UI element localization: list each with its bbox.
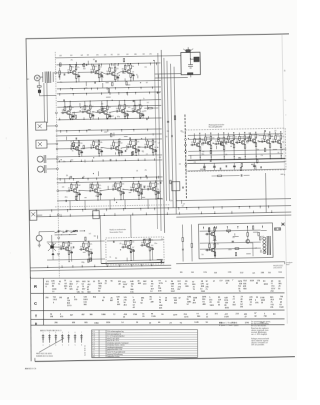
wire junction stub bbox=[101, 93, 103, 95]
svg-text:470: 470 bbox=[122, 184, 124, 186]
wire junction stub bbox=[107, 130, 109, 132]
resistor R66 bbox=[63, 243, 65, 247]
capacitor C3006 bbox=[81, 177, 83, 179]
wire bbox=[233, 163, 235, 165]
svg-text:82: 82 bbox=[254, 316, 256, 318]
wire signal path bbox=[234, 141, 237, 144]
resistor R18 bbox=[70, 115, 72, 119]
svg-text:50: 50 bbox=[140, 302, 142, 304]
table label column bbox=[42, 278, 44, 325]
wire segment bbox=[157, 92, 160, 94]
resistor R2966 bbox=[132, 151, 133, 154]
wire base bias bbox=[91, 188, 93, 190]
capacitor C1 bbox=[57, 230, 59, 232]
svg-text:83: 83 bbox=[256, 283, 258, 285]
svg-text:220: 220 bbox=[80, 143, 82, 145]
resistor R98 bbox=[275, 136, 277, 140]
wire base bias bbox=[84, 110, 86, 112]
capacitor C63 bbox=[240, 174, 242, 176]
wire junction stub bbox=[114, 213, 116, 215]
svg-text:47k: 47k bbox=[99, 185, 101, 187]
svg-text:TS17: TS17 bbox=[116, 183, 120, 185]
wire bypass bbox=[109, 114, 111, 117]
wire segment bbox=[104, 131, 107, 133]
svg-text:47n: 47n bbox=[89, 188, 91, 190]
resistor R3022 bbox=[264, 148, 265, 151]
svg-text:53: 53 bbox=[249, 304, 251, 306]
wire junction stub bbox=[83, 88, 85, 90]
svg-text:307: 307 bbox=[70, 314, 73, 316]
wire junction stub bbox=[135, 92, 137, 94]
transistor TS1 bbox=[72, 71, 76, 75]
wire junction stub bbox=[146, 177, 148, 179]
resistor R84 bbox=[223, 146, 225, 150]
svg-text:810: 810 bbox=[93, 297, 96, 299]
svg-text:10k: 10k bbox=[78, 191, 80, 193]
resistor R46 bbox=[152, 149, 154, 153]
resistor R61 bbox=[155, 191, 157, 195]
resistor R93 bbox=[255, 143, 257, 147]
resistor R82 bbox=[223, 137, 225, 141]
wire input bbox=[214, 143, 215, 145]
svg-text:1659: 1659 bbox=[250, 280, 254, 282]
capacitor C56 bbox=[247, 140, 249, 142]
capacitor C2996 bbox=[143, 186, 145, 188]
resistor R3024 bbox=[249, 136, 250, 139]
wire emitter bbox=[77, 149, 80, 152]
svg-text:41: 41 bbox=[226, 283, 228, 285]
resistor R17 bbox=[64, 107, 66, 111]
wire vertical interconnect bbox=[171, 64, 174, 208]
svg-text:100u: 100u bbox=[141, 242, 144, 244]
wire emitter bbox=[119, 190, 122, 193]
wire rail bbox=[56, 160, 162, 162]
resistor R43 bbox=[135, 149, 137, 153]
wire bypass bbox=[155, 148, 157, 151]
wire segment bbox=[74, 144, 76, 147]
resistor R2956 bbox=[75, 115, 76, 118]
wire emitter bbox=[213, 250, 216, 253]
wire segment bbox=[259, 134, 264, 136]
svg-text:3k3: 3k3 bbox=[151, 245, 153, 247]
capacitor C48 bbox=[141, 244, 143, 246]
resistor R90 bbox=[244, 144, 246, 148]
wire signal path bbox=[213, 143, 215, 144]
svg-text:201: 201 bbox=[270, 307, 273, 309]
wire junction stub bbox=[83, 117, 85, 119]
resistor R3084 bbox=[90, 258, 91, 261]
resistor R79 bbox=[210, 137, 212, 141]
transistor TS27 bbox=[230, 140, 234, 144]
frame left border lower part bbox=[30, 277, 33, 362]
resistor R3 bbox=[75, 66, 77, 70]
svg-text:TS2: TS2 bbox=[94, 66, 97, 68]
resistor R99 bbox=[280, 144, 282, 148]
svg-text:25u: 25u bbox=[215, 141, 217, 143]
wire emitter bbox=[74, 73, 77, 76]
svg-text:220: 220 bbox=[92, 112, 94, 114]
resistor R86 bbox=[228, 136, 230, 140]
wire input bbox=[69, 148, 70, 150]
wire bus bbox=[36, 212, 291, 217]
wire base bias bbox=[194, 143, 196, 145]
svg-text:10k: 10k bbox=[132, 72, 134, 74]
wire bbox=[212, 175, 218, 177]
wire junction stub bbox=[114, 117, 116, 119]
wire segment bbox=[147, 105, 149, 110]
svg-text:C: C bbox=[34, 302, 37, 306]
resistor R106 bbox=[214, 252, 216, 256]
wire emitter to ground bbox=[223, 150, 225, 157]
feed resistor 2 bbox=[191, 243, 193, 247]
wire segment bbox=[114, 152, 116, 154]
svg-text:680p: 680p bbox=[116, 108, 119, 110]
svg-text:686: 686 bbox=[134, 54, 137, 56]
wire bbox=[38, 81, 40, 86]
svg-text:470: 470 bbox=[101, 103, 103, 105]
svg-text:2n2: 2n2 bbox=[179, 164, 181, 166]
svg-text:560: 560 bbox=[207, 143, 209, 145]
electrolytic capacitor C49 bbox=[151, 247, 153, 249]
svg-text:10u: 10u bbox=[90, 145, 92, 147]
transistor TS25 bbox=[207, 141, 211, 145]
resistor R80 bbox=[205, 137, 207, 141]
wire junction stub bbox=[86, 93, 88, 95]
wire base bias bbox=[113, 146, 115, 148]
wire signal path bbox=[72, 111, 81, 114]
play head bbox=[37, 166, 43, 172]
capacitor C52 bbox=[202, 142, 204, 144]
wire diagonal bbox=[48, 243, 56, 251]
svg-text:439: 439 bbox=[150, 302, 153, 304]
resistor R10 bbox=[109, 68, 111, 72]
svg-text:2M2: 2M2 bbox=[78, 185, 81, 187]
wire junction stub bbox=[70, 160, 72, 162]
transistor TS23 bbox=[146, 243, 150, 247]
svg-text:820: 820 bbox=[180, 272, 183, 274]
svg-text:90: 90 bbox=[111, 281, 113, 283]
svg-text:25u: 25u bbox=[138, 104, 140, 106]
resistor R3060 bbox=[259, 237, 260, 240]
transistor TS26 bbox=[220, 142, 224, 146]
resistor R67 bbox=[68, 251, 70, 255]
resistor R2954 bbox=[126, 82, 127, 85]
resistor R75 bbox=[174, 116, 176, 120]
svg-text:TS8: TS8 bbox=[120, 105, 123, 107]
capacitor C65 bbox=[206, 249, 208, 251]
transistor TS34 bbox=[246, 239, 250, 243]
wire segment bbox=[213, 240, 217, 242]
wire bbox=[61, 230, 64, 232]
wire rail bbox=[56, 129, 162, 131]
svg-text:TS19: TS19 bbox=[151, 183, 155, 185]
electrolytic capacitor C44 bbox=[71, 251, 73, 253]
svg-text:341: 341 bbox=[70, 55, 73, 57]
svg-text:3k3: 3k3 bbox=[100, 148, 102, 150]
resistor R70 bbox=[125, 241, 127, 245]
svg-text:TS26: TS26 bbox=[219, 138, 223, 140]
wire signal path bbox=[127, 110, 131, 113]
frame right border bbox=[282, 34, 287, 324]
shield dashed vertical bbox=[55, 52, 59, 278]
electrolytic capacitor C62 bbox=[253, 164, 255, 166]
svg-text:90: 90 bbox=[206, 322, 208, 324]
wire segment bbox=[106, 96, 111, 98]
microphone M2 bbox=[36, 235, 42, 241]
svg-text:100u: 100u bbox=[144, 144, 147, 146]
wire bypass bbox=[122, 190, 124, 193]
wire bbox=[203, 168, 205, 170]
oscillator box bbox=[181, 52, 201, 75]
wire segment bbox=[126, 145, 128, 150]
svg-text:603: 603 bbox=[138, 283, 141, 285]
wire emitter bbox=[114, 74, 117, 77]
svg-text:1388: 1388 bbox=[261, 272, 265, 274]
svg-text:25u: 25u bbox=[217, 243, 219, 245]
wire bypass bbox=[81, 150, 83, 153]
resistor R74 bbox=[149, 247, 151, 251]
wire junction stub bbox=[147, 129, 149, 131]
capacitor C15 bbox=[98, 111, 100, 113]
capacitor C3005 bbox=[109, 177, 111, 179]
svg-text:4u7: 4u7 bbox=[67, 248, 69, 250]
wire junction stub bbox=[127, 117, 129, 119]
wire junction stub bbox=[82, 209, 84, 211]
svg-text:493: 493 bbox=[192, 302, 195, 304]
wire bypass bbox=[121, 149, 123, 152]
wire bypass bbox=[78, 74, 80, 77]
wire junction stub bbox=[198, 207, 200, 209]
wire emitter to ground bbox=[255, 146, 257, 156]
wire segment bbox=[76, 62, 78, 66]
wire base bias bbox=[70, 188, 72, 190]
wire signal path bbox=[101, 72, 106, 74]
resistor R89 bbox=[239, 136, 241, 140]
capacitor C13 bbox=[81, 111, 83, 113]
wire input bbox=[79, 248, 80, 250]
wire segment bbox=[127, 92, 129, 96]
svg-text:453: 453 bbox=[126, 54, 129, 56]
svg-text:85: 85 bbox=[102, 300, 104, 302]
svg-text:1296: 1296 bbox=[245, 322, 249, 324]
block B dashed bottom bbox=[55, 205, 170, 207]
svg-text:22GC200/01Z: 22GC200/01Z bbox=[273, 267, 282, 269]
wire segment bbox=[253, 142, 256, 144]
wire bbox=[187, 47, 189, 49]
svg-text:560: 560 bbox=[72, 107, 74, 109]
transistor TS6 bbox=[86, 110, 90, 114]
wire bbox=[250, 242, 253, 244]
wire segment bbox=[134, 149, 136, 153]
wire junction stub bbox=[214, 211, 216, 213]
wire segment bbox=[145, 137, 147, 141]
wire segment bbox=[152, 133, 154, 135]
svg-text:220n: 220n bbox=[65, 196, 68, 198]
svg-text:220: 220 bbox=[126, 111, 128, 113]
wire junction stub bbox=[87, 178, 89, 180]
table line bbox=[30, 277, 284, 280]
wire junction stub bbox=[59, 118, 61, 120]
svg-text:100u: 100u bbox=[276, 134, 279, 136]
resistor R69 bbox=[130, 240, 132, 244]
wire collector bbox=[152, 144, 154, 145]
wire emitter bbox=[87, 250, 90, 253]
resistor R11 bbox=[114, 76, 116, 80]
wire junction stub bbox=[59, 89, 61, 91]
wire base bias bbox=[70, 70, 72, 72]
svg-text:0,8: 0,8 bbox=[182, 206, 184, 208]
svg-text:23: 23 bbox=[169, 322, 171, 324]
wire jack bbox=[37, 214, 42, 216]
svg-text:55: 55 bbox=[81, 291, 83, 293]
wire bbox=[59, 75, 61, 80]
transistor TS15 bbox=[73, 189, 77, 193]
wire junction stub bbox=[216, 227, 218, 229]
resistor R44 bbox=[152, 141, 154, 145]
electrolytic capacitor C47 bbox=[133, 249, 135, 251]
resistor R2937 bbox=[112, 82, 113, 85]
wire input bbox=[146, 188, 147, 190]
wire base bias bbox=[124, 69, 126, 71]
wire junction stub bbox=[140, 208, 142, 210]
wire collector bbox=[135, 144, 137, 145]
svg-text:560: 560 bbox=[147, 247, 149, 249]
wire base bias bbox=[264, 139, 266, 141]
svg-text:TS5: TS5 bbox=[66, 107, 69, 109]
electrolytic capacitor C18 bbox=[127, 113, 129, 115]
transistor TS19 bbox=[152, 187, 156, 191]
wire vertical interconnect bbox=[174, 67, 177, 208]
wire emitter to ground bbox=[98, 153, 100, 156]
svg-text:30: 30 bbox=[84, 348, 86, 350]
wire segment bbox=[122, 111, 125, 113]
svg-text:4u7: 4u7 bbox=[90, 69, 92, 71]
wire collector bbox=[214, 247, 216, 248]
wire junction stub bbox=[212, 207, 214, 209]
svg-text:48: 48 bbox=[118, 284, 120, 286]
svg-text:220: 220 bbox=[116, 68, 118, 70]
wire emitter bbox=[96, 191, 99, 194]
svg-text:PRINT 9022 245 04391: PRINT 9022 245 04391 bbox=[36, 353, 52, 355]
wire junction stub bbox=[149, 63, 151, 65]
wire junction stub bbox=[67, 210, 69, 212]
svg-text:286: 286 bbox=[54, 322, 57, 324]
svg-text:TS22: TS22 bbox=[126, 241, 130, 243]
svg-text:1833: 1833 bbox=[264, 284, 268, 286]
capacitor C3007 bbox=[65, 200, 67, 202]
wire junction stub bbox=[238, 207, 240, 209]
electrolytic capacitor C26 bbox=[121, 150, 123, 152]
svg-text:150: 150 bbox=[157, 184, 159, 186]
wire segment bbox=[258, 141, 263, 143]
svg-text:AA6024 CS: AA6024 CS bbox=[25, 367, 37, 370]
resistor R15 bbox=[59, 71, 61, 75]
resistor R3034 bbox=[210, 150, 211, 153]
resistor R59 bbox=[155, 183, 157, 187]
wire emitter to ground bbox=[130, 253, 132, 261]
capacitor C27 bbox=[127, 146, 129, 148]
svg-text:867: 867 bbox=[110, 300, 113, 302]
wire junction stub bbox=[117, 64, 119, 66]
wire segment bbox=[261, 229, 267, 231]
svg-text:405: 405 bbox=[159, 307, 162, 309]
transistor TS4 bbox=[127, 70, 131, 74]
wire input to row1 bbox=[56, 72, 67, 74]
wire segment bbox=[73, 112, 75, 116]
wire segment bbox=[85, 81, 87, 86]
wire bypass bbox=[78, 192, 80, 195]
wire junction stub bbox=[154, 208, 156, 210]
wire bbox=[69, 230, 74, 232]
wire segment bbox=[103, 108, 106, 110]
input transformer bbox=[44, 72, 46, 83]
svg-text:36: 36 bbox=[123, 286, 125, 288]
svg-text:6V: 6V bbox=[134, 105, 136, 107]
svg-text:1n5: 1n5 bbox=[126, 116, 128, 118]
wire input bbox=[98, 112, 99, 114]
wire segment bbox=[143, 185, 145, 187]
wire junction stub bbox=[97, 117, 99, 119]
svg-text:1279: 1279 bbox=[173, 314, 177, 316]
resistor R2965 bbox=[110, 133, 111, 136]
wire segment bbox=[190, 155, 192, 159]
wire emitter bbox=[123, 112, 126, 115]
wire emitter bbox=[129, 72, 132, 75]
svg-text:805: 805 bbox=[84, 322, 87, 324]
svg-text:4k7: 4k7 bbox=[146, 82, 148, 84]
svg-text:blad 2: blad 2 bbox=[286, 264, 290, 266]
wire junction stub bbox=[97, 88, 99, 90]
resistor R50 bbox=[97, 184, 99, 188]
wire collector bbox=[214, 231, 216, 232]
svg-text:1570: 1570 bbox=[203, 272, 207, 274]
svg-text:63: 63 bbox=[165, 300, 167, 302]
wire segment bbox=[139, 185, 142, 187]
svg-text:1532: 1532 bbox=[240, 272, 244, 274]
capacitor C29 bbox=[144, 146, 146, 148]
wire segment bbox=[81, 106, 84, 108]
svg-text:144: 144 bbox=[117, 54, 120, 56]
wire oscillator internal vertical bbox=[189, 52, 191, 64]
wire segment bbox=[200, 168, 206, 170]
electrolytic capacitor C14 bbox=[92, 114, 94, 116]
wire rail bbox=[57, 177, 163, 179]
wire input to row4 bbox=[58, 190, 67, 192]
svg-text:1164: 1164 bbox=[201, 291, 205, 293]
resistor R58 bbox=[138, 192, 140, 196]
capacitor C3054 bbox=[225, 165, 227, 167]
capacitor C2933 bbox=[94, 82, 96, 84]
wire switch to mic bbox=[39, 230, 54, 232]
wire signal path bbox=[117, 72, 121, 74]
electrolytic capacitor C4 bbox=[78, 74, 80, 76]
capacitor C33 bbox=[89, 190, 91, 192]
svg-text:vervolg zie: vervolg zie bbox=[286, 262, 293, 264]
table line bbox=[31, 318, 285, 321]
svg-text:535: 535 bbox=[77, 292, 80, 294]
wire bbox=[191, 247, 193, 261]
wire segment bbox=[144, 110, 147, 112]
resistor R22 bbox=[106, 106, 108, 110]
svg-text:TS25: TS25 bbox=[206, 137, 210, 139]
wire emitter to ground bbox=[68, 254, 70, 261]
legend pointer line bbox=[39, 338, 64, 352]
svg-text:100u: 100u bbox=[201, 154, 204, 156]
svg-text:47k: 47k bbox=[145, 170, 147, 172]
wire bbox=[155, 76, 188, 79]
resistor R55 bbox=[120, 191, 122, 195]
parts table divider 2 bbox=[105, 330, 107, 357]
